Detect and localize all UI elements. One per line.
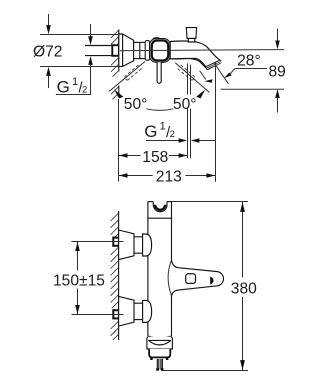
- dimension 158: [119, 99, 188, 182]
- neck between escutcheon and handle: [134, 41, 146, 43]
- lower escutcheon: [119, 296, 134, 326]
- stream axis leg: [214, 63, 229, 84]
- svg-text:28°: 28°: [237, 52, 261, 69]
- 28 degree annotation: [200, 52, 267, 182]
- dimension 213: [119, 169, 216, 186]
- dimension G12 supply: [56, 24, 93, 97]
- rosette arc: [168, 261, 171, 295]
- svg-text:380: 380: [231, 280, 257, 297]
- aerator face band: [206, 60, 222, 71]
- svg-text:158: 158: [142, 149, 168, 166]
- middle arc under lever: [146, 109, 173, 111]
- upper cylinder: [134, 236, 143, 238]
- right leg: [175, 63, 209, 93]
- square joystick handle: [153, 37, 161, 40]
- hatch strokes: [111, 30, 119, 99]
- svg-text:150±15: 150±15: [53, 272, 105, 289]
- supply pipe: [85, 45, 119, 56]
- svg-text:213: 213: [156, 169, 182, 186]
- threaded nipple in wall: [112, 45, 119, 56]
- svg-text:89: 89: [269, 64, 286, 81]
- diverter knob: [186, 28, 196, 42]
- svg-text:Ø72: Ø72: [33, 44, 62, 61]
- lower union nut: [143, 300, 152, 322]
- lower cylinder: [134, 302, 143, 304]
- mousseur: [157, 359, 162, 370]
- wall hatching bottom view: [111, 211, 119, 340]
- handle square: [134, 38, 171, 63]
- arc piece left of vertical line: [200, 71, 206, 80]
- dimension G12 outlet: [144, 64, 215, 159]
- unions: [119, 230, 152, 326]
- spout: [170, 41, 221, 70]
- dimension 150: [53, 242, 124, 315]
- spout outlet bottom: [147, 336, 173, 371]
- handle bottom view: [168, 260, 223, 297]
- dimension 380: [161, 202, 257, 371]
- vertical extension line from spout tip: [215, 62, 217, 182]
- wall line segments: [118, 30, 120, 45]
- svg-text:50°: 50°: [124, 96, 148, 113]
- leader with arrow: [224, 73, 232, 79]
- centerline / 89 top reference line: [120, 50, 284, 51]
- wall hatching top view: [111, 30, 119, 100]
- 50 degree annotation: [109, 62, 210, 113]
- lever: [157, 62, 161, 83]
- escutcheon cone: [119, 34, 134, 66]
- pipe stubs in wall: [113, 238, 119, 246]
- inner square: [186, 274, 196, 284]
- safety button: [210, 277, 213, 285]
- shower holder bracket: [148, 202, 172, 219]
- dimension 89: [221, 29, 286, 113]
- left leg: [109, 62, 145, 92]
- upper escutcheon: [119, 230, 134, 260]
- body: [148, 202, 172, 337]
- upper union nut: [143, 234, 152, 256]
- dimension O72: [33, 14, 119, 88]
- svg-text:50°: 50°: [173, 96, 197, 113]
- ghost lever left (dashed): [125, 65, 195, 80]
